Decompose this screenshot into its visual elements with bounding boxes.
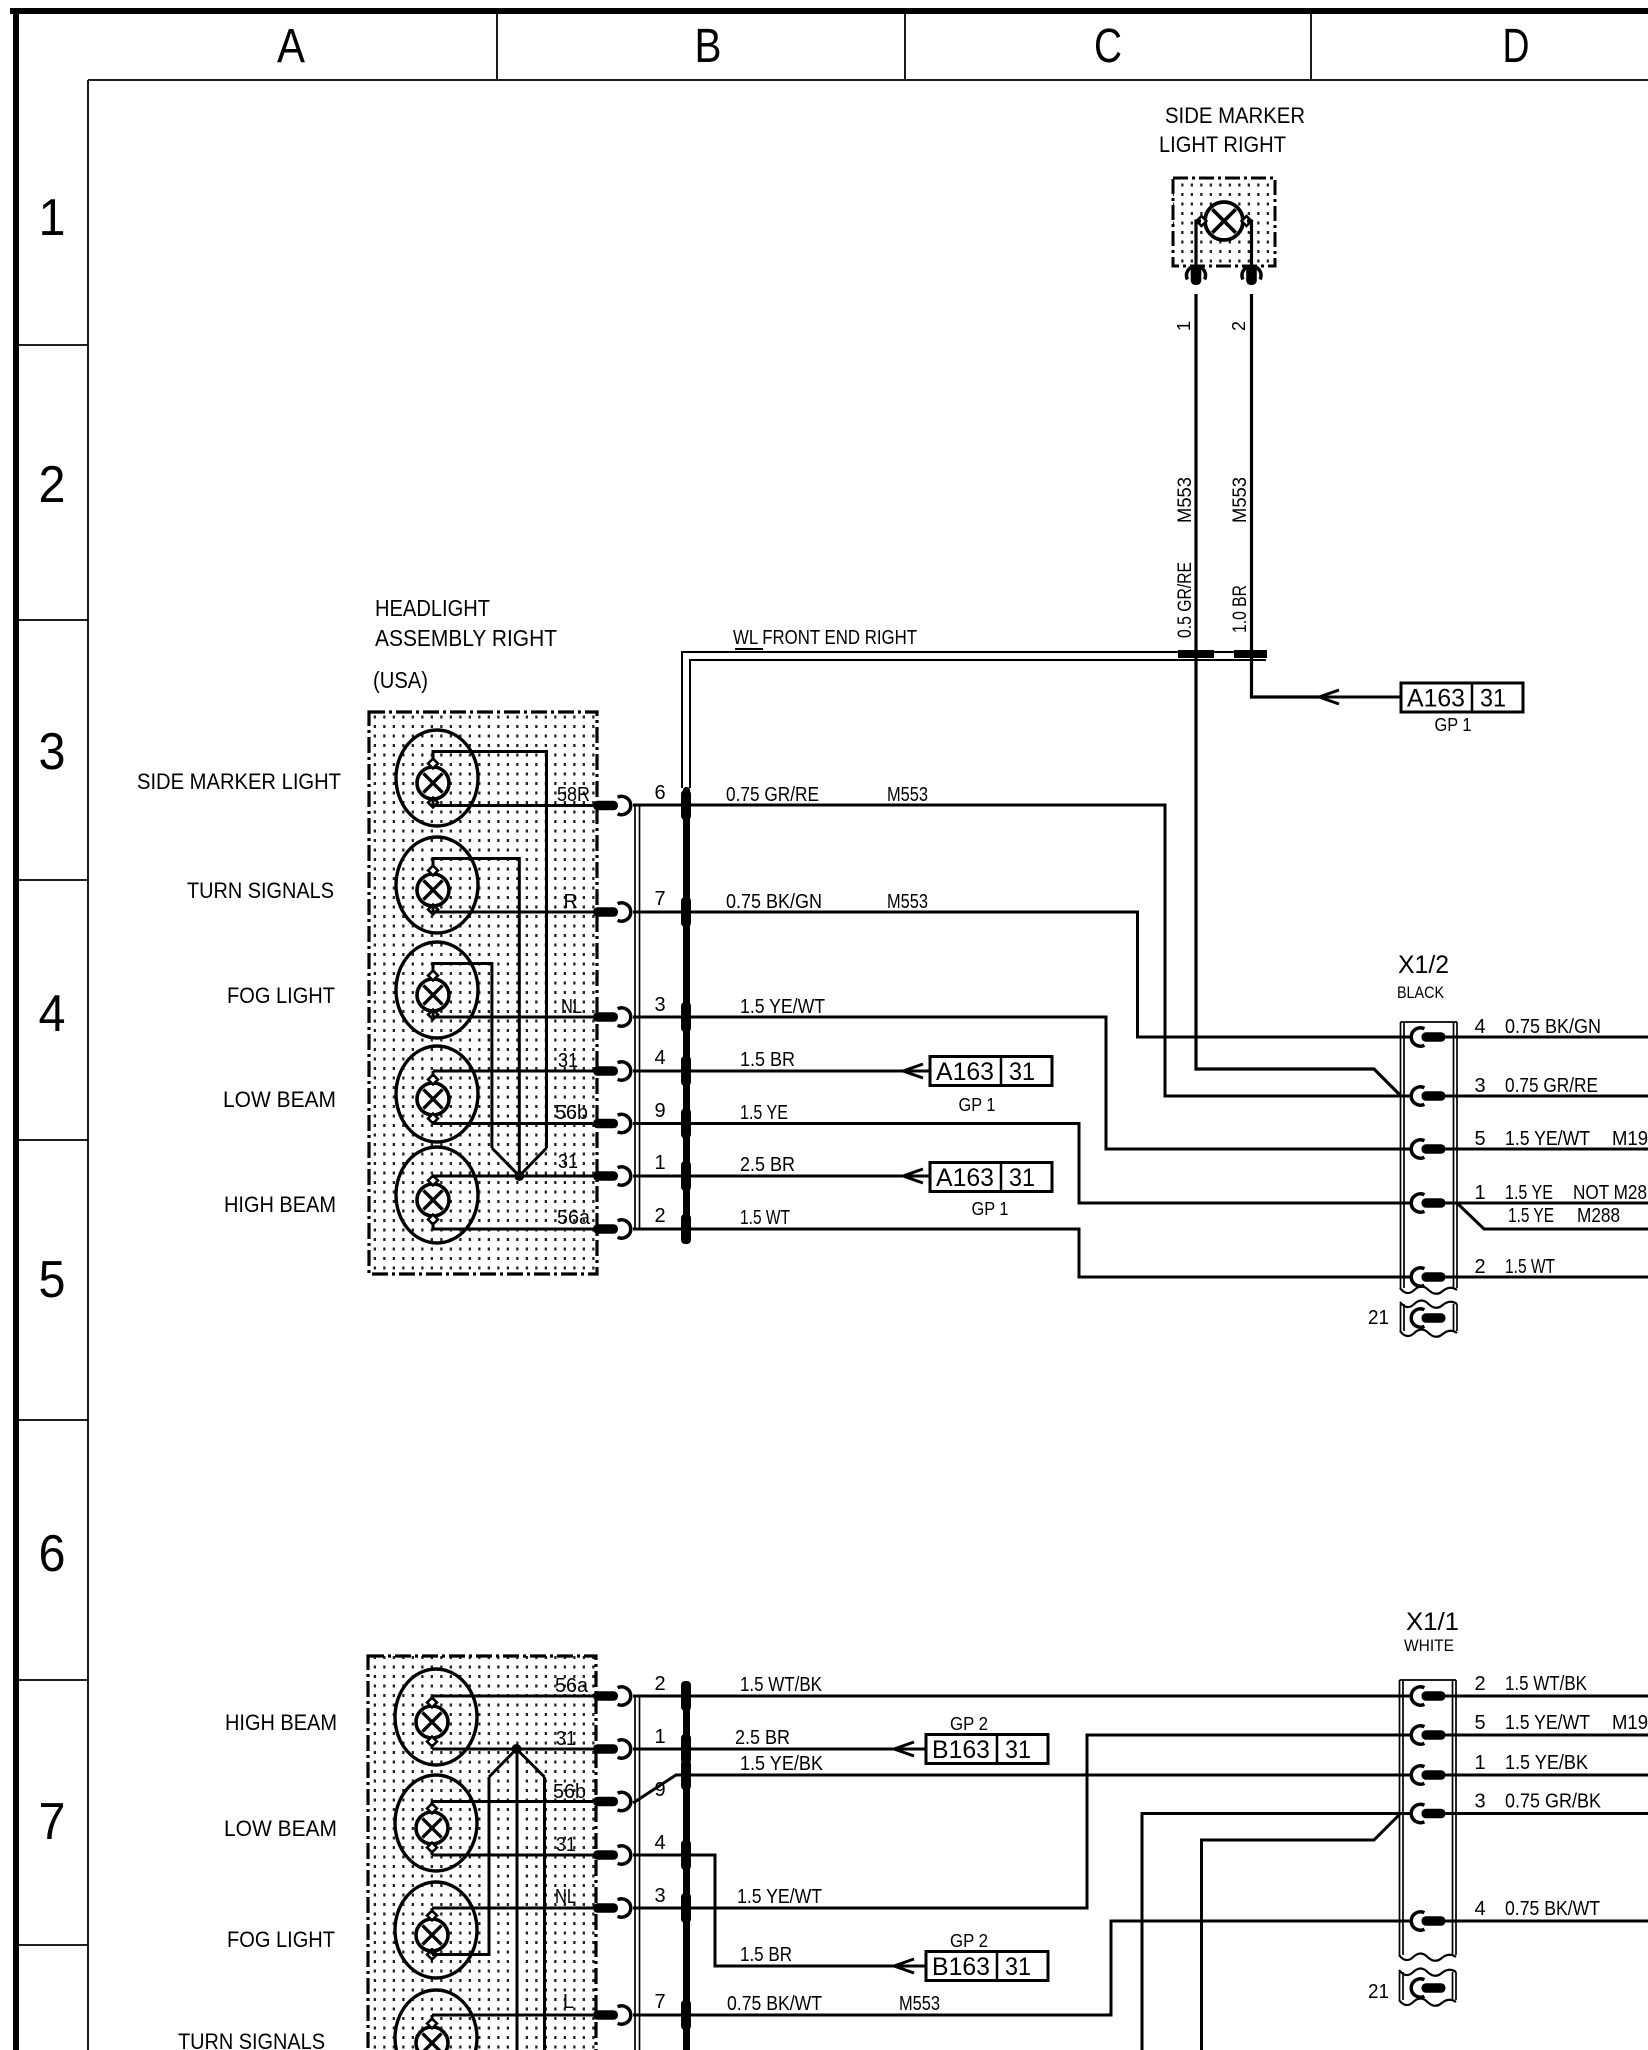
svg-text:GP 1: GP 1 — [959, 1095, 996, 1115]
wire to X1/1 pin3 branch — [1202, 1814, 1401, 2050]
svg-text:31: 31 — [1005, 1736, 1031, 1764]
connector pin lead 1 — [1191, 266, 1202, 285]
wire 1.5 YE/WT lower — [633, 1735, 1412, 1908]
svg-text:4: 4 — [654, 1047, 665, 1069]
headlight box lower — [368, 1656, 596, 2050]
svg-text:3: 3 — [1474, 1075, 1485, 1097]
svg-text:2: 2 — [654, 1673, 665, 1695]
ground arrow 1.0 BR — [1319, 690, 1339, 697]
svg-text:(USA): (USA) — [373, 667, 428, 693]
wire 1.5 WT pin2 — [633, 1229, 1412, 1277]
svg-text:HIGH BEAM: HIGH BEAM — [224, 1192, 336, 1217]
harness outline WL outer — [682, 652, 1266, 788]
wire 2.5 BR lower — [633, 1748, 894, 1751]
headlight pin y1176 — [593, 1171, 618, 1181]
riser merge diagonals — [492, 1148, 519, 1176]
svg-text:1: 1 — [654, 1726, 665, 1748]
wire right X1/1 pin 4 — [1446, 1920, 1648, 1923]
wire lamp3 bottom NL — [432, 1010, 435, 1017]
svg-text:56a: 56a — [555, 1675, 589, 1697]
lamp turn signal lower — [395, 1990, 477, 2050]
junction bar wire1 — [1178, 650, 1214, 658]
svg-text:WL FRONT END RIGHT: WL FRONT END RIGHT — [733, 627, 917, 649]
connector X1/1 body — [1399, 1680, 1401, 1955]
wire lamp4' top L — [431, 2015, 434, 2021]
lamp low beam — [396, 1046, 478, 1142]
row divider 6-7 — [16, 1679, 88, 1681]
svg-text:R: R — [564, 891, 578, 913]
svg-text:X1/1: X1/1 — [1406, 1608, 1459, 1636]
svg-text:1: 1 — [39, 189, 66, 247]
connector X1/2 pin 21 — [1411, 1309, 1424, 1327]
junction dot 31 — [514, 1171, 524, 1181]
wire lamp2' bottom 31 — [431, 1850, 434, 1855]
svg-text:NL: NL — [561, 996, 582, 1018]
svg-text:A163: A163 — [1407, 685, 1465, 713]
ground box B163 31 b — [926, 1952, 1048, 1981]
svg-text:1.5 YE: 1.5 YE — [1508, 1205, 1554, 1227]
svg-text:1.5 YE/WT: 1.5 YE/WT — [740, 996, 825, 1018]
svg-text:0.75 BK/WT: 0.75 BK/WT — [1505, 1898, 1600, 1920]
ground box A163 31 mid2 — [930, 1163, 1052, 1192]
junction bar wire2 — [1234, 650, 1267, 658]
lamp fog light — [396, 942, 478, 1038]
headlight pin lower y1855 — [593, 1850, 618, 1860]
lamp low beam lower — [395, 1775, 477, 1871]
wire 0.75 BK/WT — [633, 1921, 1412, 2015]
wire 1.5 YE/WT pin3 — [633, 1017, 1412, 1149]
svg-text:SIDE MARKER LIGHT: SIDE MARKER LIGHT — [137, 769, 341, 794]
wire 1.5 WT/BK — [633, 1695, 1412, 1698]
svg-text:2: 2 — [1229, 321, 1249, 331]
svg-text:B163: B163 — [932, 1736, 990, 1764]
svg-text:31: 31 — [556, 1834, 576, 1856]
svg-text:LOW BEAM: LOW BEAM — [224, 1816, 337, 1841]
headlight box upper — [369, 712, 597, 1274]
svg-text:NL: NL — [555, 1886, 576, 1908]
column divider C-D — [1310, 14, 1312, 80]
headlight pin lower y1749 — [593, 1744, 618, 1754]
connector X1/2 pin 2 — [1411, 1268, 1424, 1286]
svg-text:5: 5 — [1474, 1712, 1485, 1734]
wire lamp terminal 1 — [1196, 221, 1201, 266]
svg-text:1: 1 — [1174, 321, 1194, 331]
wire lamp4 bottom 56b — [432, 1121, 435, 1124]
wire right X1/2 pin 5 — [1446, 1148, 1648, 1151]
svg-text:1.5 BR: 1.5 BR — [740, 1944, 792, 1966]
svg-text:2: 2 — [1474, 1673, 1485, 1695]
svg-text:FOG LIGHT: FOG LIGHT — [227, 983, 335, 1008]
connector X1/2 pin 5 — [1411, 1140, 1424, 1158]
svg-text:31: 31 — [1480, 685, 1506, 713]
svg-text:0.75 GR/BK: 0.75 GR/BK — [1505, 1791, 1602, 1813]
svg-text:B: B — [695, 20, 722, 73]
border frame left — [13, 8, 19, 2050]
headlight pin lower y1908 — [593, 1903, 618, 1913]
svg-text:1.5 YE/WT: 1.5 YE/WT — [1505, 1712, 1590, 1734]
svg-text:2: 2 — [39, 456, 66, 514]
wire lamp3 top to riser1 — [433, 964, 492, 1149]
svg-text:HEADLIGHT: HEADLIGHT — [375, 595, 490, 621]
wire lamp5 bottom 56a — [432, 1222, 435, 1229]
bus junction lower y1908 — [681, 1893, 691, 1923]
svg-text:GP 2: GP 2 — [950, 1931, 988, 1951]
junction dot 31 lower — [512, 1744, 522, 1754]
wire right X1/1 pin 3 — [1446, 1812, 1648, 1815]
connector X1/1 pin 21 box — [1399, 1969, 1456, 1976]
wire right X1/1 pin 5 — [1446, 1734, 1648, 1737]
svg-text:A163: A163 — [936, 1164, 994, 1192]
svg-text:GP 1: GP 1 — [1435, 715, 1472, 735]
row divider 7-8 — [16, 1944, 88, 1946]
svg-text:7: 7 — [654, 888, 665, 910]
wire lamp5 top 31 — [432, 1176, 435, 1178]
wire 1.5 BR lower — [633, 1855, 894, 1966]
svg-text:0.75 BK/WT: 0.75 BK/WT — [727, 1993, 822, 2015]
wire right X1/2 pin 1 — [1446, 1202, 1648, 1205]
svg-text:TURN SIGNALS: TURN SIGNALS — [178, 2029, 325, 2050]
svg-text:2: 2 — [1474, 1256, 1485, 1278]
wire lamp1' bottom 31 — [431, 1744, 434, 1749]
bus junction lower y1855 — [681, 1840, 691, 1870]
ground box B163 31 a — [926, 1735, 1048, 1764]
bus junction lower y1749 — [681, 1734, 691, 1764]
side marker lamp box — [1173, 178, 1275, 266]
wire 1.5 YE M288 branch — [1457, 1203, 1648, 1229]
wire 1.5 YE/BK diagonal — [633, 1775, 1412, 1803]
svg-text:1.5 WT/BK: 1.5 WT/BK — [740, 1674, 823, 1696]
wire 0.75 GR/RE pin6 — [633, 805, 1412, 1096]
row divider 1-2 — [16, 344, 88, 346]
svg-text:3: 3 — [654, 1885, 665, 1907]
svg-text:0.5 GR/RE: 0.5 GR/RE — [1175, 562, 1196, 638]
ground box A163 31 top — [1401, 683, 1523, 712]
svg-text:1: 1 — [1474, 1752, 1485, 1774]
svg-text:X1/2: X1/2 — [1398, 951, 1449, 979]
svg-text:56b: 56b — [555, 1102, 588, 1124]
svg-text:GP 2: GP 2 — [950, 1714, 988, 1734]
wire lamp terminal 2 — [1247, 221, 1252, 266]
wire right X1/1 pin 2 — [1446, 1695, 1648, 1698]
row divider 3-4 — [16, 879, 88, 881]
svg-text:1.5 YE/WT: 1.5 YE/WT — [737, 1886, 822, 1908]
svg-text:2: 2 — [654, 1205, 665, 1227]
svg-text:2.5 BR: 2.5 BR — [735, 1727, 790, 1749]
svg-text:GP 1: GP 1 — [972, 1199, 1009, 1219]
row column line — [87, 80, 89, 2050]
row divider 4-5 — [16, 1139, 88, 1141]
headlight pin y1123.5 — [593, 1119, 618, 1129]
border frame top — [10, 8, 1648, 14]
wire lamp4 top 31 — [432, 1071, 435, 1077]
wire lamp1' top 56a — [431, 1696, 434, 1700]
wire right X1/1 pin 1 — [1446, 1774, 1648, 1777]
wire 1.5 YE pin9 — [633, 1124, 1412, 1204]
wire right X1/2 pin 2 — [1446, 1276, 1648, 1279]
wire lamp2' top 56b — [431, 1802, 434, 1807]
svg-text:WHITE: WHITE — [1404, 1636, 1454, 1655]
connector X1/1 pin 3 — [1411, 1804, 1424, 1822]
svg-text:1.5 YE/BK: 1.5 YE/BK — [740, 1753, 824, 1775]
connector X1/2 pin 1 — [1411, 1194, 1424, 1212]
svg-text:BLACK: BLACK — [1397, 983, 1445, 1002]
riser1 lower to fog — [432, 1777, 489, 1955]
ground arrow 2.5 BR — [903, 1169, 923, 1176]
bus junction y1071 — [681, 1056, 691, 1086]
svg-text:1.5 WT: 1.5 WT — [740, 1207, 790, 1229]
svg-text:LOW BEAM: LOW BEAM — [223, 1087, 336, 1112]
bus junction y1017 — [681, 1002, 691, 1032]
svg-text:1.0 BR: 1.0 BR — [1230, 585, 1251, 633]
svg-text:M553: M553 — [1175, 477, 1196, 523]
bus junction y1123.5 — [681, 1109, 691, 1139]
svg-text:0.75 GR/RE: 0.75 GR/RE — [726, 784, 819, 806]
bus junction lower y1696 — [681, 1681, 691, 1711]
riser mid lower — [516, 1749, 519, 2050]
bus junction y1229 — [681, 1214, 691, 1244]
svg-text:D: D — [1503, 20, 1530, 73]
svg-text:7: 7 — [39, 1793, 66, 1851]
svg-text:7: 7 — [654, 1991, 665, 2013]
connector X1/1 pin 5 — [1411, 1726, 1424, 1744]
svg-text:31: 31 — [1009, 1058, 1035, 1086]
lamp high beam — [396, 1147, 478, 1243]
ground box A163 31 mid1 — [930, 1057, 1052, 1086]
headlight pin y805.5 — [593, 801, 618, 811]
wire 0.5 GR/RE vertical — [1196, 294, 1401, 1096]
svg-text:1.5 YE/BK: 1.5 YE/BK — [1505, 1752, 1589, 1774]
svg-text:1.5 BR: 1.5 BR — [740, 1049, 795, 1071]
wire lamp2 top to riser2 — [433, 859, 519, 1177]
column divider A-B — [496, 14, 498, 80]
connector X1/1 pin 21 — [1411, 1979, 1424, 1997]
svg-text:58R: 58R — [557, 784, 590, 806]
svg-text:6: 6 — [39, 1525, 66, 1583]
bus junction lower y1775 — [681, 1760, 691, 1790]
svg-text:ASSEMBLY RIGHT: ASSEMBLY RIGHT — [375, 625, 557, 651]
wire to X1/1 pin3 from below — [1142, 1814, 1412, 2050]
svg-text:6: 6 — [654, 782, 665, 804]
wire 1.0 BR vertical — [1252, 294, 1320, 697]
wire lamp1 top to riser3 — [433, 752, 547, 1149]
svg-text:3: 3 — [654, 994, 665, 1016]
headlight pin lower y1801.5 — [593, 1797, 618, 1807]
svg-text:NOT M28: NOT M28 — [1573, 1182, 1647, 1204]
svg-text:4: 4 — [1474, 1898, 1485, 1920]
connector X1/2 pin 21 box — [1400, 1301, 1457, 1308]
svg-text:SIDE MARKER: SIDE MARKER — [1165, 103, 1305, 128]
svg-text:31: 31 — [556, 1728, 576, 1750]
svg-text:L: L — [563, 1991, 574, 2013]
bus bar lower — [683, 1682, 690, 2050]
ground arrow 2.5 BR lower — [894, 1742, 914, 1749]
svg-text:4: 4 — [1474, 1016, 1485, 1038]
svg-text:0.75 BK/GN: 0.75 BK/GN — [1505, 1016, 1601, 1038]
svg-text:5: 5 — [39, 1251, 66, 1309]
svg-text:1.5 YE: 1.5 YE — [1505, 1182, 1553, 1204]
svg-text:M19: M19 — [1612, 1712, 1648, 1734]
svg-text:31: 31 — [558, 1050, 578, 1072]
svg-text:M553: M553 — [887, 784, 928, 806]
headlight pin y1229 — [593, 1224, 618, 1234]
svg-text:A163: A163 — [936, 1058, 994, 1086]
bus junction y805 — [681, 790, 691, 820]
svg-text:0.75 BK/GN: 0.75 BK/GN — [726, 891, 822, 913]
header underline — [88, 79, 1648, 81]
svg-text:M553: M553 — [887, 891, 928, 913]
connector X1/2 pin 4 — [1411, 1028, 1424, 1046]
svg-text:4: 4 — [39, 985, 66, 1043]
headlight pin y1071 — [593, 1066, 618, 1076]
bus junction lower y2015 — [681, 2000, 691, 2030]
lamp side marker — [396, 730, 478, 826]
connector pin lead 2 — [1246, 266, 1257, 285]
connector X1/1 pin 4 — [1411, 1912, 1424, 1930]
svg-text:5: 5 — [1474, 1128, 1485, 1150]
bus junction y912 — [681, 897, 691, 927]
connector X1/2 pin 3 — [1411, 1087, 1424, 1105]
connector X1/1 pin 1 — [1411, 1766, 1424, 1784]
svg-text:1: 1 — [654, 1152, 665, 1174]
svg-text:M553: M553 — [1230, 477, 1251, 523]
headlight pin y912 — [593, 907, 618, 917]
svg-text:M553: M553 — [899, 1993, 940, 2015]
svg-text:M288: M288 — [1577, 1205, 1620, 1227]
svg-text:3: 3 — [1474, 1791, 1485, 1813]
headlight pin y1017 — [593, 1012, 618, 1022]
svg-text:B163: B163 — [932, 1953, 990, 1981]
ground arrow 1.5 BR lower — [894, 1959, 914, 1966]
svg-text:31: 31 — [558, 1151, 578, 1173]
svg-text:C: C — [1094, 20, 1122, 73]
lamp fog light lower — [395, 1882, 477, 1978]
svg-text:1: 1 — [1474, 1182, 1485, 1204]
lamp turn signal — [396, 837, 478, 933]
wire lamp3' top NL — [431, 1908, 434, 1913]
lamp high beam lower — [395, 1669, 477, 1765]
wire lamp1 bottom 58R — [432, 804, 435, 807]
svg-text:1.5 YE/WT: 1.5 YE/WT — [1505, 1128, 1590, 1150]
svg-text:1.5 YE: 1.5 YE — [740, 1102, 788, 1124]
wire right X1/2 pin 4 — [1446, 1036, 1648, 1039]
svg-text:A: A — [277, 20, 305, 73]
svg-text:21: 21 — [1368, 1981, 1389, 2003]
svg-text:2.5 BR: 2.5 BR — [740, 1154, 795, 1176]
svg-text:31: 31 — [1009, 1164, 1035, 1192]
connector X1/2 body — [1400, 1022, 1402, 1288]
svg-text:9: 9 — [654, 1100, 665, 1122]
svg-text:21: 21 — [1368, 1307, 1389, 1329]
wire 2.5 BR pin1 — [633, 1175, 903, 1178]
bus junction y1176 — [681, 1161, 691, 1191]
column divider B-C — [904, 14, 906, 80]
headlight pin lower y2015 — [593, 2010, 618, 2020]
bus bar upper — [683, 787, 690, 1243]
wire 0.75 BK/GN pin7 — [633, 912, 1412, 1037]
row divider 5-6 — [16, 1419, 88, 1421]
harness outline WL inner — [690, 660, 1266, 788]
wire 1.5 BR pin4 — [633, 1070, 903, 1073]
lamp side marker right — [1205, 202, 1243, 240]
svg-text:1.5 WT: 1.5 WT — [1505, 1256, 1555, 1278]
svg-text:TURN SIGNALS: TURN SIGNALS — [187, 878, 334, 903]
svg-text:56a: 56a — [557, 1207, 591, 1229]
row divider 2-3 — [16, 619, 88, 621]
connector X1/1 pin 2 — [1411, 1687, 1424, 1705]
wire lamp2 bottom R — [432, 905, 435, 912]
svg-text:FOG LIGHT: FOG LIGHT — [227, 1927, 335, 1952]
svg-text:HIGH BEAM: HIGH BEAM — [225, 1710, 337, 1735]
svg-text:3: 3 — [39, 723, 66, 781]
wire right X1/2 pin 3 — [1446, 1095, 1648, 1098]
svg-text:31: 31 — [1005, 1953, 1031, 1981]
svg-text:LIGHT RIGHT: LIGHT RIGHT — [1159, 132, 1286, 157]
riser2 lower — [543, 1777, 546, 2050]
svg-text:1.5 WT/BK: 1.5 WT/BK — [1505, 1673, 1588, 1695]
svg-text:0.75 GR/RE: 0.75 GR/RE — [1505, 1075, 1598, 1097]
svg-text:56b: 56b — [553, 1781, 586, 1803]
headlight pin lower y1696 — [593, 1691, 618, 1701]
riser split diagonals lower — [489, 1749, 517, 1777]
connector rail upper — [634, 805, 636, 1229]
ground arrow 1.5 BR — [903, 1064, 923, 1071]
connector rail lower — [634, 1696, 636, 2050]
svg-text:M19: M19 — [1612, 1128, 1648, 1150]
svg-text:4: 4 — [654, 1832, 665, 1854]
